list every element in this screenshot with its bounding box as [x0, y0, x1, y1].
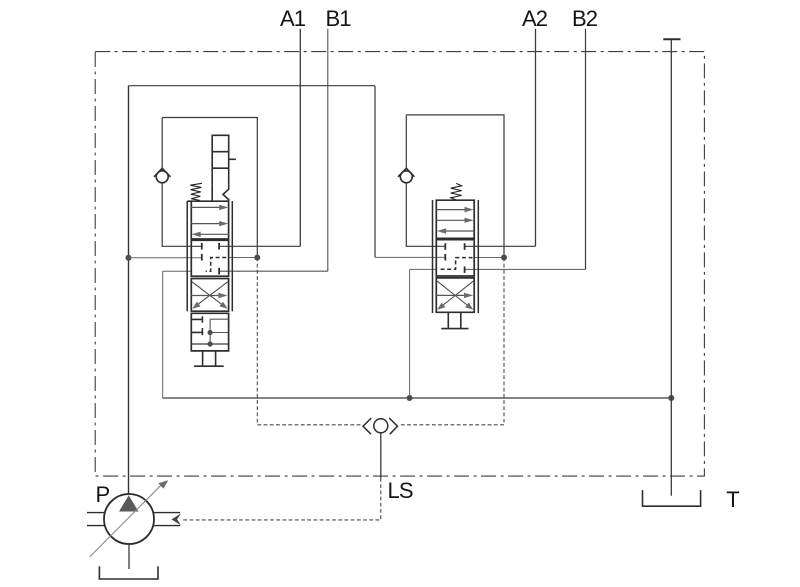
- wire A2 to valve2 row1: [465, 245, 536, 247]
- valve1 left rail: [186, 201, 188, 311]
- valve2 left rail: [432, 200, 434, 313]
- wire B1 to valve1 row3: [219, 270, 328, 272]
- valve2 box3 (crossed arrows): [436, 278, 474, 312]
- valve1 X diagonals: [192, 282, 228, 307]
- valve2 X arrowhead down-right: [465, 303, 473, 310]
- valve1 arrow left 3: [192, 232, 229, 237]
- svg-text:LS: LS: [388, 478, 413, 503]
- check valve V2 (seat + ball): [398, 168, 415, 183]
- shuttle valve LS: [363, 418, 398, 434]
- valve1 port bars centre box: [202, 243, 219, 275]
- valve2 box1 (parallel arrows): [436, 200, 474, 238]
- svg-text:B2: B2: [572, 6, 598, 31]
- valve2 box2 (centre position): [436, 240, 474, 276]
- svg-text:A2: A2: [522, 6, 548, 31]
- wire LS dashed from valve2: [399, 258, 505, 425]
- wire bypass loop V2: [406, 115, 504, 258]
- svg-text:B1: B1: [326, 6, 352, 31]
- check valve V2 riser upper: [405, 115, 407, 168]
- node LS tap valve1: [254, 255, 260, 261]
- valve2 pedestal: [441, 312, 468, 328]
- svg-text:T: T: [726, 487, 739, 512]
- valve1 box4 bottom line: [191, 343, 228, 345]
- wire LS dashed to pump: [181, 478, 381, 520]
- node valve1 box4 a: [208, 330, 213, 335]
- node LS tap valve2: [501, 255, 507, 261]
- valve1 box4 left T port 1: [191, 316, 202, 323]
- wire P riser from pump: [128, 86, 130, 495]
- valve1 pilot stack: [212, 135, 236, 201]
- pump LS port lines: [154, 513, 181, 526]
- valve2 arrow left 3: [437, 228, 474, 233]
- node valve1 box4 b: [208, 341, 213, 346]
- wire valve1 row2 to LS node: [229, 257, 258, 259]
- wire valve2 tank drop: [410, 269, 437, 398]
- wire check V2 down to row1: [406, 183, 445, 247]
- svg-text:A1: A1: [280, 6, 306, 31]
- wire LS dashed from valve1: [257, 258, 363, 425]
- wire valve2 row2 to LS node: [474, 257, 504, 259]
- valve2 X arrowhead down-left: [437, 303, 445, 310]
- pump variable arrow: [90, 480, 169, 557]
- pump LS arrowhead: [172, 513, 182, 525]
- wire valve1 tank drop: [163, 271, 192, 398]
- node P branch valve1: [126, 255, 132, 261]
- valve2 X diagonals: [437, 281, 474, 308]
- valve1 right rail: [231, 201, 233, 311]
- wire P to valve1 row2: [129, 257, 202, 259]
- valve2 spring (vertical): [451, 183, 462, 200]
- node tank junction T line: [668, 395, 674, 401]
- pump suction line: [128, 544, 130, 569]
- pump circle P1: [104, 494, 154, 544]
- valve2 arrow right 1: [436, 207, 473, 212]
- svg-text:P: P: [96, 482, 111, 507]
- wire A1 vertical: [299, 29, 301, 247]
- wire LS shuttle output solid: [380, 433, 382, 478]
- wire P top run: [129, 85, 376, 87]
- valve2 centre dashed pilot path: [439, 258, 473, 270]
- wire bypass loop V1: [162, 118, 257, 258]
- valve1 box4 left T port 2: [191, 328, 202, 335]
- valve1 centre dashed pilot path: [206, 258, 227, 272]
- valve1 X horizontal arrow: [191, 293, 227, 298]
- T line top cap: [663, 38, 680, 40]
- valve1 box3 (crossed arrows): [191, 279, 228, 312]
- valve1 X arrowhead down-right: [219, 302, 227, 309]
- valve1 box2 (centre position): [191, 240, 228, 276]
- wire A1 to valve1 row1: [219, 245, 300, 247]
- pump outlet triangle: [119, 495, 139, 511]
- wire P to valve2 row2: [375, 256, 445, 258]
- wire B2 to valve2 row3: [465, 268, 586, 270]
- valve1 box4 (compensator): [191, 313, 228, 351]
- wire P drop to valve2: [374, 86, 376, 258]
- valve1 box4 internal network: [210, 319, 229, 344]
- valve2 port bars centre box: [445, 243, 464, 273]
- wire T line vertical: [670, 39, 672, 495]
- wire A2 vertical: [535, 29, 537, 247]
- valve2 right rail: [477, 200, 479, 313]
- valve1 spring (slanted): [190, 183, 202, 200]
- check valve V1 (seat + ball): [154, 168, 171, 183]
- valve1 box1 (parallel arrows): [187, 201, 228, 239]
- wire tank run: [163, 397, 672, 399]
- valve1 X arrowhead down-left: [192, 302, 200, 309]
- valve2 arrow right 2: [436, 218, 473, 223]
- node tank junction valve2: [407, 395, 413, 401]
- tank symbol T: [643, 490, 701, 506]
- wire B1 vertical: [327, 29, 329, 272]
- valve1 pedestal: [194, 351, 224, 366]
- enclosure border (dash-dot): [95, 52, 704, 477]
- check valve V1 riser upper: [161, 118, 163, 169]
- wire B2 vertical: [585, 29, 587, 270]
- valve1 arrow right 1: [191, 205, 228, 210]
- valve2 X horizontal arrow: [436, 293, 473, 298]
- valve1 arrow right 2: [191, 221, 228, 226]
- pump tank symbol: [99, 566, 158, 579]
- pump left stubs: [87, 513, 105, 526]
- wire check V1 down to row1: [162, 183, 202, 247]
